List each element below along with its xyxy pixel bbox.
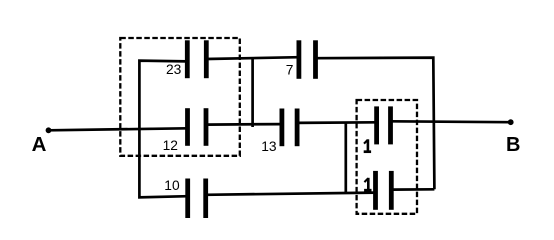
wire capacitor 1 top to node B [391,120,511,124]
capacitor 1 top [377,106,391,144]
svg-text:23: 23 [166,62,182,77]
capacitor 10 [188,179,206,219]
svg-text:7: 7 [286,63,294,78]
svg-text:12: 12 [163,138,178,153]
capacitor 7 [299,40,316,79]
wire capacitor 23 to capacitor 7 [206,57,299,59]
wire capacitor 13 to capacitor 1 top [297,121,377,124]
svg-text:10: 10 [164,178,180,193]
svg-text:A: A [32,134,47,156]
capacitor 12 [188,108,207,146]
node B [508,119,514,125]
wire capacitor 12 to capacitor 13 [206,123,282,126]
wire capacitor 7 to right vertical down to bottom [316,58,435,190]
wire A to capacitor 12 [49,128,188,130]
svg-text:B: B [506,134,520,156]
wire capacitor 1 bottom to right vertical [391,188,434,191]
wire middle vertical junction [344,123,347,194]
capacitor 1 bottom [376,171,392,210]
node A [46,127,52,133]
wire capacitor 10 to capacitor 1 bottom [206,193,376,195]
wire left vertical with top and bottom stubs [139,61,187,198]
wire bridge vertical top node to middle node [251,58,254,127]
value label 1 bottom [364,178,371,191]
capacitor 13 [282,109,297,147]
dashed group box left [120,38,240,156]
svg-text:13: 13 [261,139,277,154]
value label 1 top [364,139,371,152]
dashed group box right [357,100,417,214]
capacitor 23 [187,40,206,78]
